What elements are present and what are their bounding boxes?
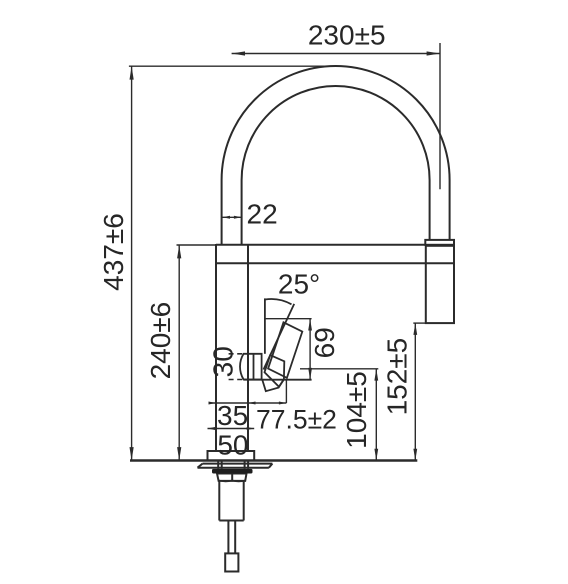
svg-text:35: 35 — [217, 400, 248, 431]
svg-text:30: 30 — [207, 346, 238, 377]
svg-text:104±5: 104±5 — [341, 371, 372, 449]
svg-text:437±6: 437±6 — [98, 213, 129, 291]
svg-text:240±6: 240±6 — [145, 302, 176, 380]
svg-text:69: 69 — [309, 327, 340, 358]
svg-text:22: 22 — [247, 198, 278, 229]
svg-text:50: 50 — [217, 429, 248, 460]
svg-text:152±5: 152±5 — [382, 338, 413, 416]
svg-text:77.5±2: 77.5±2 — [256, 404, 337, 434]
svg-text:230±5: 230±5 — [308, 19, 386, 50]
svg-text:25°: 25° — [278, 269, 320, 300]
